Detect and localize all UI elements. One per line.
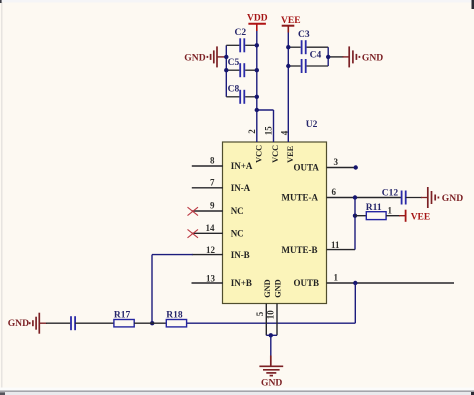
power label VEE at R11 bbox=[411, 212, 431, 222]
ground symbol bottom-left (bar style) bbox=[30, 313, 40, 334]
pin number 14 bbox=[206, 223, 216, 233]
svg-text:R18: R18 bbox=[166, 311, 183, 321]
pin name VCC (pin 2) bbox=[254, 145, 263, 163]
svg-text:9: 9 bbox=[210, 201, 215, 211]
svg-text:2: 2 bbox=[247, 129, 257, 134]
pin number 15 bbox=[263, 126, 273, 136]
capacitor C5 bbox=[226, 63, 256, 77]
ground symbol top-left (bar style) bbox=[207, 46, 217, 67]
junction C2 at VDD rail bbox=[255, 43, 259, 47]
wire R11 left lead bbox=[355, 215, 366, 217]
svg-text:VEE: VEE bbox=[286, 145, 295, 163]
junction ground at left rail bbox=[224, 55, 228, 59]
pin number 11 bbox=[331, 240, 340, 250]
pin 12 IN-B stub bbox=[192, 254, 223, 256]
svg-text:1: 1 bbox=[334, 273, 339, 283]
svg-text:IN+B: IN+B bbox=[231, 278, 252, 288]
wire MUTE-B node down to OUTB feedback bbox=[354, 283, 356, 323]
junction VDD rail to pin15 branch bbox=[255, 108, 259, 112]
wire ground to input capacitor bbox=[39, 322, 70, 324]
label R11 bbox=[366, 203, 382, 213]
IC U2 designator label bbox=[306, 120, 318, 130]
resistor R17 bbox=[114, 320, 134, 327]
ground label GND below IC bbox=[261, 377, 282, 388]
resistor R18 bbox=[166, 320, 186, 327]
ground symbol below IC (earth style) bbox=[259, 356, 283, 376]
pin 13 IN+B stub bbox=[192, 282, 224, 284]
ground label GND at C12 bbox=[442, 193, 463, 204]
svg-text:8: 8 bbox=[210, 156, 215, 166]
wire MUTE-A node down to MUTE-B bbox=[354, 198, 356, 250]
svg-text:GND: GND bbox=[261, 377, 282, 388]
svg-text:4: 4 bbox=[279, 130, 289, 135]
svg-text:GND: GND bbox=[263, 279, 272, 297]
junction at R11 branch bbox=[353, 214, 357, 218]
pin 7 IN-A stub bbox=[192, 187, 223, 189]
junction C5 at left rail bbox=[224, 68, 228, 72]
resistor R11 bbox=[366, 212, 386, 220]
pin 11 MUTE-B stub bbox=[327, 249, 356, 251]
svg-text:C5: C5 bbox=[228, 58, 240, 68]
svg-text:NC: NC bbox=[231, 229, 244, 239]
junction at MUTE-A node bbox=[353, 195, 357, 199]
svg-text:VDD: VDD bbox=[247, 13, 268, 23]
pin number 6 bbox=[332, 187, 337, 197]
pin number 8 bbox=[210, 156, 215, 166]
pin number 1 bbox=[334, 273, 339, 283]
svg-text:VCC: VCC bbox=[271, 145, 280, 163]
wire C12 to ground bbox=[406, 197, 428, 199]
svg-text:VCC: VCC bbox=[254, 145, 263, 163]
svg-text:C3: C3 bbox=[298, 30, 310, 40]
capacitor C8 bbox=[226, 90, 256, 104]
power symbol VEE (bar) at R11 bbox=[405, 210, 407, 222]
svg-text:GND: GND bbox=[362, 53, 383, 64]
capacitor C4 bbox=[288, 59, 328, 73]
svg-text:GND: GND bbox=[8, 318, 29, 329]
svg-text:13: 13 bbox=[206, 273, 216, 283]
svg-text:GND: GND bbox=[442, 193, 463, 204]
junction below GND pins bbox=[269, 333, 273, 337]
input capacitor (unlabeled) plates bbox=[71, 316, 75, 330]
svg-text:VEE: VEE bbox=[411, 212, 431, 222]
pin name NC (pin 9) bbox=[231, 206, 244, 216]
pin number 12 bbox=[206, 245, 216, 255]
no-connect X on pin 9 bbox=[188, 207, 199, 215]
svg-text:5: 5 bbox=[255, 311, 265, 316]
svg-text:6: 6 bbox=[332, 187, 337, 197]
svg-text:15: 15 bbox=[263, 126, 273, 136]
pin 8 IN+A stub bbox=[192, 165, 223, 167]
wire down to earth ground bbox=[270, 335, 272, 356]
wire branch to pin 15 bbox=[257, 110, 274, 142]
IC U2 body bbox=[223, 142, 327, 304]
pin 9 NC stub bbox=[192, 210, 223, 212]
svg-text:12: 12 bbox=[206, 245, 216, 255]
label C3 bbox=[298, 30, 310, 40]
pin name IN-A bbox=[231, 183, 251, 193]
pin 6 MUTE-A stub bbox=[327, 197, 402, 199]
svg-text:IN-B: IN-B bbox=[231, 250, 250, 260]
pin name MUTE-B bbox=[282, 245, 318, 255]
svg-text:1: 1 bbox=[388, 205, 393, 215]
power label VDD bbox=[247, 13, 268, 23]
svg-text:11: 11 bbox=[331, 240, 340, 250]
wire R11 right lead to VEE bbox=[386, 215, 405, 217]
wire right rail to ground bbox=[328, 56, 348, 58]
svg-text:R17: R17 bbox=[114, 311, 131, 321]
junction between R17 and R18 bbox=[150, 321, 154, 325]
label R18 bbox=[166, 311, 183, 321]
svg-text:3: 3 bbox=[334, 157, 339, 167]
capacitor C3 bbox=[288, 40, 328, 54]
pin 1 OUTB stub and wire to the right bbox=[327, 282, 455, 284]
pin name VCC (pin 15) bbox=[271, 145, 280, 163]
ground label GND top-right bbox=[362, 53, 383, 64]
ground label GND bottom-left bbox=[8, 318, 29, 329]
wire tie between pins 5 and 10 bbox=[266, 334, 277, 336]
label R17 bbox=[114, 311, 131, 321]
pin name IN-B bbox=[231, 250, 250, 260]
pin name OUTA bbox=[294, 163, 320, 173]
wire R17 to node bbox=[134, 322, 166, 324]
capacitor C12 plates bbox=[402, 191, 406, 205]
label C8 bbox=[228, 85, 240, 95]
ground label GND top-left bbox=[184, 53, 205, 64]
power symbol VEE (bar) bbox=[282, 26, 295, 33]
svg-text:R11: R11 bbox=[366, 203, 382, 213]
svg-text:IN-A: IN-A bbox=[231, 183, 251, 193]
svg-text:C12: C12 bbox=[382, 189, 399, 199]
svg-text:C4: C4 bbox=[310, 51, 322, 61]
pin name IN+A bbox=[231, 161, 253, 171]
pin name OUTB bbox=[294, 278, 320, 288]
pin number 4 bbox=[279, 130, 289, 135]
pin name GND (pin 10) bbox=[274, 279, 283, 297]
pin 14 NC stub bbox=[192, 232, 223, 234]
svg-text:IN+A: IN+A bbox=[231, 161, 253, 171]
label C12 bbox=[382, 189, 399, 199]
svg-text:C2: C2 bbox=[235, 28, 247, 38]
pin 2 VCC wire from VDD rail bbox=[256, 31, 258, 142]
pin name IN+B bbox=[231, 278, 252, 288]
wire IN-B to feedback node bbox=[152, 255, 193, 324]
junction ground at right rail bbox=[326, 55, 330, 59]
pin name GND (pin 5) bbox=[263, 279, 272, 297]
svg-text:MUTE-B: MUTE-B bbox=[282, 245, 318, 255]
ground symbol at C12 (bar style) bbox=[428, 187, 439, 208]
svg-text:GND: GND bbox=[184, 53, 205, 64]
pin number 9 bbox=[210, 201, 215, 211]
pin number 10 bbox=[266, 310, 276, 320]
pin name NC (pin 14) bbox=[231, 229, 244, 239]
junction C3 at VEE rail bbox=[286, 45, 290, 49]
svg-text:GND: GND bbox=[274, 279, 283, 297]
svg-text:7: 7 bbox=[210, 178, 215, 188]
pin 10 GND lead bbox=[276, 304, 278, 336]
capacitor C2 bbox=[226, 38, 256, 52]
pin number 3 bbox=[334, 157, 339, 167]
pin 5 GND lead bbox=[265, 304, 267, 336]
power symbol VDD (bar) bbox=[248, 24, 266, 31]
pin 3 OUTA stub bbox=[327, 167, 356, 169]
wire right rail C3/C4 bbox=[327, 47, 329, 66]
pin number 2 bbox=[247, 129, 257, 134]
power label VEE bbox=[281, 16, 301, 26]
pin number 7 bbox=[210, 178, 215, 188]
svg-text:10: 10 bbox=[266, 310, 276, 320]
svg-text:VEE: VEE bbox=[281, 16, 301, 26]
wire capacitor to R17 bbox=[75, 322, 114, 324]
svg-text:OUTA: OUTA bbox=[294, 163, 320, 173]
no-connect X on pin 14 bbox=[188, 229, 199, 237]
junction C4 at VEE rail bbox=[286, 64, 290, 68]
svg-text:U2: U2 bbox=[306, 120, 318, 130]
pin name MUTE-A bbox=[282, 193, 319, 203]
pin number 13 bbox=[206, 273, 216, 283]
wire bottom feedback horizontal bbox=[187, 322, 356, 324]
node dot at OUTA wire end bbox=[354, 165, 358, 169]
svg-text:NC: NC bbox=[231, 206, 244, 216]
svg-text:MUTE-A: MUTE-A bbox=[282, 193, 319, 203]
svg-text:C8: C8 bbox=[228, 85, 240, 95]
pin number 1 of R11 bbox=[388, 205, 393, 215]
pin name VEE (pin 4) bbox=[286, 145, 295, 163]
wire left rail of C2/C5/C8 bbox=[225, 45, 227, 97]
label C4 bbox=[310, 51, 322, 61]
pin number 5 bbox=[255, 311, 265, 316]
svg-text:OUTB: OUTB bbox=[294, 278, 320, 288]
junction C5 at VDD rail bbox=[255, 68, 259, 72]
label C5 bbox=[228, 58, 240, 68]
pin 4 VEE wire from VEE rail bbox=[287, 32, 289, 142]
junction C8 at VDD rail bbox=[255, 95, 259, 99]
junction at OUTB node bbox=[353, 281, 357, 285]
label C2 bbox=[235, 28, 247, 38]
ground symbol top-right (bar style) bbox=[349, 46, 359, 67]
svg-text:14: 14 bbox=[206, 223, 216, 233]
wire ground to left rail bbox=[217, 56, 226, 58]
